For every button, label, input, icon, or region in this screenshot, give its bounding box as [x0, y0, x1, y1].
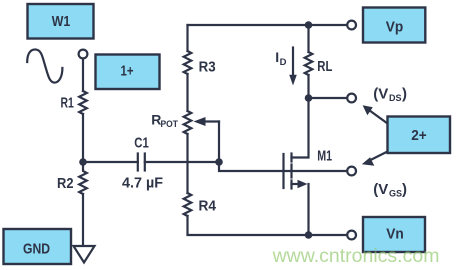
- label R4: [199, 197, 217, 214]
- svg-text:): ): [402, 181, 407, 198]
- terminal circle: VGS: [347, 167, 356, 176]
- label C1: [134, 135, 149, 152]
- label box W1: [28, 4, 94, 39]
- terminal circle: VDS: [347, 94, 356, 103]
- svg-text:GND: GND: [23, 241, 50, 258]
- wire: RL bottom to drain node: [307, 75, 309, 98]
- svg-text:www.cntronics.com: www.cntronics.com: [272, 245, 440, 267]
- junction: drain node: [305, 94, 313, 102]
- label R1: [61, 95, 74, 112]
- resistor R1: [79, 91, 87, 114]
- label (VGS): [373, 181, 407, 199]
- label box GND: [4, 229, 72, 264]
- junction: node B (wiper/C1/gate): [215, 158, 223, 166]
- label M1: [317, 148, 332, 165]
- label (VDS): [373, 86, 407, 104]
- potentiometer RPOT: [184, 111, 192, 134]
- label box 2+: [388, 117, 451, 154]
- svg-text:POT: POT: [161, 119, 179, 130]
- svg-text:M1: M1: [317, 148, 332, 165]
- label RL: [317, 59, 332, 75]
- terminal circle: W1 source node: [79, 50, 88, 59]
- svg-text:DS: DS: [389, 93, 402, 103]
- resistor R4: [184, 193, 192, 216]
- svg-text:4.7 µF: 4.7 µF: [122, 175, 163, 192]
- junction: top rail / RL: [305, 21, 313, 29]
- svg-text:1+: 1+: [121, 62, 134, 79]
- svg-text:Vp: Vp: [386, 19, 404, 36]
- arrow: 2+ to VDS terminal: [363, 105, 388, 123]
- svg-text:R2: R2: [57, 175, 74, 192]
- ground: [74, 246, 95, 263]
- label box Vp: [363, 8, 425, 43]
- wire: RL column top stem: [307, 25, 309, 52]
- svg-text:C1: C1: [134, 135, 149, 152]
- svg-text:): ): [402, 86, 407, 103]
- label box Vn: [363, 217, 425, 252]
- wire: gate lead from node B to VGS terminal: [219, 162, 347, 171]
- wire: divider column R3 top stem: [186, 25, 188, 51]
- svg-text:(V: (V: [373, 86, 388, 103]
- resistor R2: [79, 162, 87, 194]
- resistor RL: [305, 52, 313, 75]
- wire: R4 bottom to bottom rail corner: [188, 216, 348, 235]
- wire: RPOT bottom to R4 top: [186, 134, 188, 193]
- capacitor C1: [138, 154, 145, 171]
- label ID: [275, 49, 286, 68]
- junction: bottom rail / source: [305, 231, 313, 239]
- wire: C1 right plate to node B: [145, 161, 219, 163]
- svg-text:GS: GS: [389, 188, 402, 198]
- sine wave symbol: [27, 50, 62, 83]
- svg-text:I: I: [275, 49, 279, 65]
- svg-text:Vn: Vn: [386, 225, 404, 242]
- svg-text:R1: R1: [61, 95, 74, 112]
- svg-text:(V: (V: [373, 181, 388, 198]
- wire: R2 bottom to ground: [82, 194, 84, 246]
- svg-text:RL: RL: [317, 59, 332, 75]
- terminal circle: Vn: [347, 231, 356, 240]
- wire: drain node to VDS terminal: [309, 97, 348, 99]
- junction: node A (R1/R2/C1): [79, 158, 87, 166]
- current arrow ID: [289, 48, 297, 86]
- label box 1+: [96, 55, 160, 90]
- svg-text:R4: R4: [199, 197, 217, 214]
- wire: C1 row from node A to C1 left plate: [83, 161, 138, 163]
- wiper of RPOT: [194, 117, 220, 162]
- svg-text:D: D: [280, 57, 287, 68]
- resistor R3: [184, 51, 192, 74]
- transistor M1: [284, 98, 309, 235]
- svg-text:R3: R3: [199, 59, 216, 76]
- value 4.7 uF: [122, 175, 163, 192]
- wire: top rail from R3 top to Vp terminal: [188, 24, 348, 26]
- label R2: [57, 175, 74, 192]
- watermark www.cntronics.com: [272, 245, 440, 267]
- svg-text:2+: 2+: [411, 127, 427, 144]
- label RPOT: [151, 112, 178, 131]
- svg-text:W1: W1: [52, 13, 71, 30]
- terminal circle: Vp: [347, 21, 356, 30]
- wire: left column from source node down to R1: [82, 59, 84, 92]
- wire: R3 bottom to RPOT top: [186, 74, 188, 111]
- label R3: [199, 59, 216, 76]
- wire: R1 bottom to node A: [82, 114, 84, 162]
- arrow: 2+ to VGS terminal: [362, 152, 388, 166]
